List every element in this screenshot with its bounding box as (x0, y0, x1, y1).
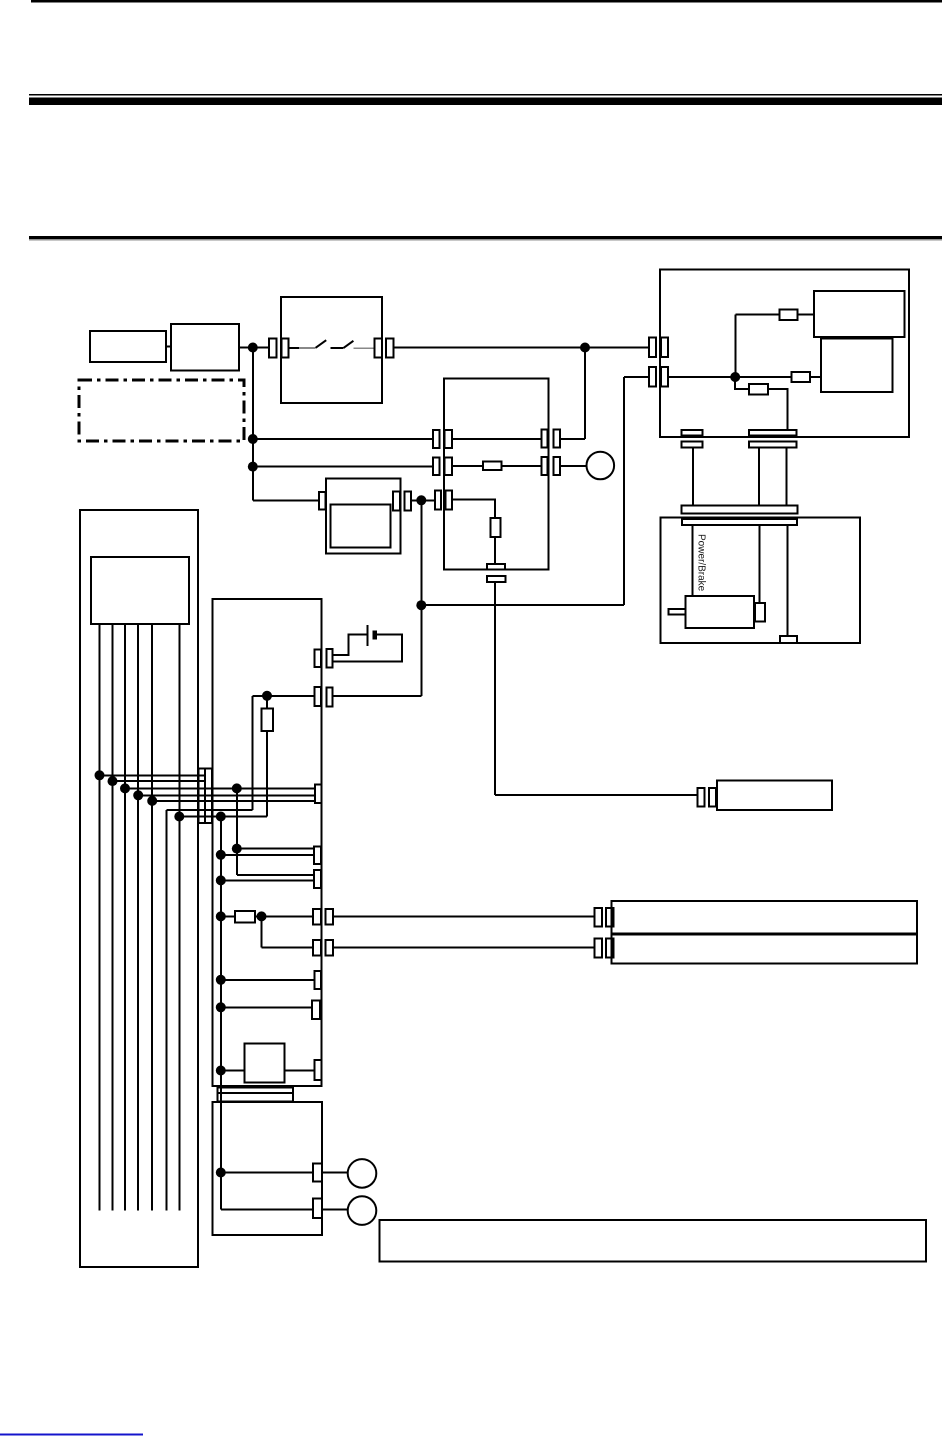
node (257, 911, 267, 921)
header double rule thick (29, 98, 942, 105)
wire (810, 376, 821, 378)
switch contacts (289, 347, 299, 349)
terminal bar (749, 430, 796, 436)
box ignition key unit (90, 331, 166, 362)
footer link underline (0, 1433, 143, 1435)
connector pin (606, 938, 613, 957)
wire cell 4 (137, 624, 139, 1211)
terminal bar (749, 441, 796, 447)
connector pin (282, 338, 289, 357)
svg-text:Power/Brake: Power/Brake (696, 534, 707, 592)
control unit box left (213, 599, 322, 1086)
wire (322, 1172, 348, 1174)
interlock inner box (331, 505, 391, 548)
connector pin (314, 971, 320, 989)
connector pin (313, 909, 321, 925)
motor (686, 596, 754, 628)
connector pin (325, 909, 333, 925)
bus connector block (199, 769, 212, 824)
switch box (281, 297, 382, 403)
header double rule thin (29, 94, 942, 96)
node J6 (416, 495, 426, 505)
wire (692, 447, 694, 505)
lamp bar box 1 (612, 901, 918, 934)
battery pack inner box (91, 557, 189, 624)
lamp circle 2 (348, 1196, 377, 1225)
terminal bar (682, 441, 703, 447)
dash-dot option box (79, 380, 244, 441)
top page rule (31, 0, 942, 3)
wire (262, 947, 314, 949)
fuse (749, 384, 768, 395)
wire (421, 604, 624, 606)
connector pin (393, 491, 400, 510)
connector pin (661, 367, 668, 386)
connector pin (553, 430, 560, 448)
fuse (780, 310, 798, 320)
connector pin (327, 687, 333, 706)
wire (560, 438, 585, 440)
wire (411, 499, 435, 501)
bus wire 4 (138, 794, 315, 796)
connector pin (709, 788, 716, 807)
wire row2 (452, 465, 483, 467)
connector pin (445, 430, 452, 448)
wire headlight 1 (333, 915, 595, 917)
terminal bar (682, 430, 703, 436)
lamp circle 1 (348, 1159, 377, 1188)
display box lower (213, 1102, 322, 1235)
fuse (235, 911, 255, 922)
node J8 (262, 691, 272, 701)
connector pin (649, 338, 656, 357)
connector pin (313, 1164, 322, 1182)
motor shaft tab (669, 609, 686, 614)
wire row1 (452, 438, 542, 440)
interlock box (326, 479, 401, 554)
inner box relay 2 (821, 338, 892, 392)
node J7 (416, 600, 426, 610)
indicator lamp (587, 452, 615, 480)
node (216, 1002, 226, 1012)
node J1 (248, 343, 258, 353)
wire (332, 695, 421, 697)
node (216, 911, 226, 921)
wire (786, 447, 788, 505)
node B1 (95, 770, 105, 780)
box key switch module (171, 324, 239, 371)
wire (758, 447, 760, 505)
wire (494, 537, 496, 564)
battery plate short (373, 630, 378, 639)
motor coupling (755, 603, 765, 622)
wire (253, 466, 433, 468)
node J3 (730, 372, 740, 382)
connector pin battery (327, 649, 333, 668)
node B2 (108, 776, 118, 786)
wire (736, 313, 780, 315)
node (216, 812, 226, 822)
wire cell 2 (112, 624, 114, 1211)
wire (221, 1208, 313, 1210)
connector pin (314, 846, 321, 864)
wire (560, 465, 586, 467)
wire (253, 695, 315, 697)
wire (221, 854, 314, 856)
wire (237, 874, 314, 876)
node (216, 850, 226, 860)
bus wire 1 (100, 774, 206, 776)
node (216, 975, 226, 985)
fuse vertical (262, 709, 274, 731)
wire (798, 313, 814, 315)
terminal bar (487, 576, 505, 582)
mount bar (682, 519, 797, 525)
connector pin (319, 492, 325, 510)
bus wire 2 (113, 780, 206, 782)
wire (237, 848, 314, 850)
wire (221, 1070, 245, 1072)
node J2 (580, 343, 590, 353)
wire row3 (453, 499, 496, 518)
brake block (780, 636, 797, 643)
connector pin (661, 338, 668, 357)
connector pin (325, 940, 333, 956)
wire (255, 915, 313, 917)
wire branch (236, 788, 238, 875)
connector pin (313, 940, 321, 956)
joint bar (218, 1087, 293, 1093)
node B5 (147, 796, 157, 806)
node B3 (120, 783, 130, 793)
inner box relay 1 (814, 291, 904, 337)
connector pin (446, 490, 453, 509)
connector pin (315, 784, 322, 803)
power brake box (661, 518, 861, 644)
connector pin (314, 1060, 321, 1080)
wire (758, 525, 760, 603)
fuse (483, 462, 502, 470)
node J5 (248, 462, 258, 472)
wire (692, 525, 694, 596)
node B4 (133, 790, 143, 800)
wire battery loop (332, 635, 367, 656)
wire (495, 794, 697, 796)
node (216, 1066, 226, 1076)
connector pin (553, 457, 560, 475)
wire (221, 1172, 313, 1174)
wire (166, 346, 171, 348)
bus wire 3 (125, 787, 315, 789)
wire (768, 389, 787, 430)
wire (786, 525, 788, 636)
wire (624, 376, 649, 378)
wire lower feed (252, 696, 254, 810)
connector pin (541, 457, 547, 475)
control box middle (444, 378, 549, 569)
connector pin (698, 788, 705, 807)
wire battery loop (332, 635, 401, 662)
wire (253, 438, 433, 440)
node (232, 844, 242, 854)
wire (266, 731, 268, 817)
wire (623, 377, 625, 605)
fuse (491, 518, 501, 537)
wire (668, 376, 791, 378)
connector pin (404, 491, 411, 510)
wire headlight 2 (333, 947, 595, 949)
terminal bar (487, 564, 505, 570)
connector pin (386, 338, 393, 357)
wire cell 7 (178, 624, 180, 1211)
node J4 (248, 434, 258, 444)
wire (584, 348, 586, 439)
node (216, 1168, 226, 1178)
connector pin (314, 687, 320, 706)
connector pin (433, 458, 439, 475)
note box bottom (380, 1220, 926, 1261)
connector pin (269, 338, 276, 357)
battery harness box tall left (80, 510, 198, 1267)
wire (266, 696, 268, 709)
buzzer box (244, 1043, 284, 1082)
node (216, 875, 226, 885)
connector pin (314, 870, 321, 888)
bus wire 7 (179, 816, 267, 818)
connector pin (433, 430, 439, 448)
connector pin (649, 367, 656, 386)
wire branch long (220, 817, 222, 1210)
wire (221, 915, 235, 917)
wire (735, 314, 737, 377)
wire main vertical (252, 348, 254, 501)
wire (221, 1006, 312, 1008)
wire (221, 979, 315, 981)
bus wire 6 (166, 809, 252, 811)
wire (420, 500, 422, 696)
sensor box (717, 781, 832, 810)
node (232, 783, 242, 793)
connector pin (595, 938, 602, 957)
wire cell 5 (151, 624, 153, 1211)
connector pin battery (314, 650, 320, 668)
wire (735, 377, 749, 389)
wire cell 3 (124, 624, 126, 1211)
connector pin (541, 430, 547, 448)
bus wire 5 (152, 800, 315, 802)
connector pin (595, 908, 602, 927)
wire long drop (494, 582, 496, 795)
node B7 (174, 812, 184, 822)
wire cell 6 (165, 810, 167, 1211)
wire (322, 1208, 348, 1210)
wire (285, 1070, 315, 1072)
connector pin (313, 1198, 322, 1218)
connector pin (374, 338, 381, 357)
wire (502, 465, 542, 467)
section rule (29, 236, 942, 239)
connector pin (445, 458, 452, 475)
wire (261, 916, 263, 947)
fuse (792, 372, 810, 382)
wire (239, 347, 269, 349)
connector pin (435, 490, 441, 509)
wire cell 1 (99, 624, 101, 1211)
joint bar (218, 1093, 293, 1102)
wire (221, 879, 314, 881)
connector pin (606, 908, 613, 927)
mount bar (682, 506, 798, 514)
lamp bar box 2 (612, 935, 918, 964)
battery plate long (367, 625, 369, 646)
main unit box top right (660, 269, 909, 437)
wire (253, 499, 319, 501)
wire (394, 347, 649, 349)
connector pin (312, 1000, 320, 1019)
